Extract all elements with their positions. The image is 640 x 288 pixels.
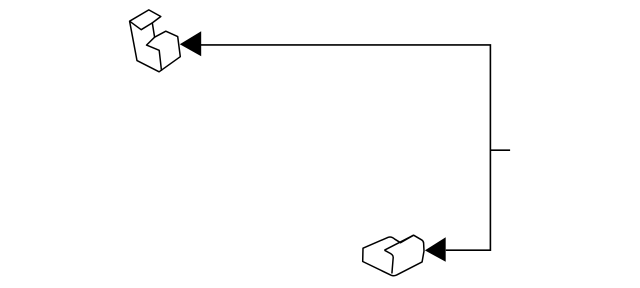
clip part (top-left) front notch lines: [147, 37, 162, 71]
clip part (top-left) top-face notch lines: [130, 21, 153, 30]
tick mark on vertical leader: [490, 149, 510, 151]
arrowhead to bottom clip: [425, 237, 446, 262]
clip part (bottom-right) ridge edge line: [384, 235, 413, 250]
arrowhead to top clip: [180, 31, 201, 56]
clip part (bottom-right) notch lines: [384, 250, 393, 273]
leader line (top arrow to corner, down, to bottom arrow): [201, 45, 491, 250]
clip part (top-left) outer outline: [130, 10, 181, 72]
clip part (bottom-right) outer outline: [363, 235, 424, 276]
